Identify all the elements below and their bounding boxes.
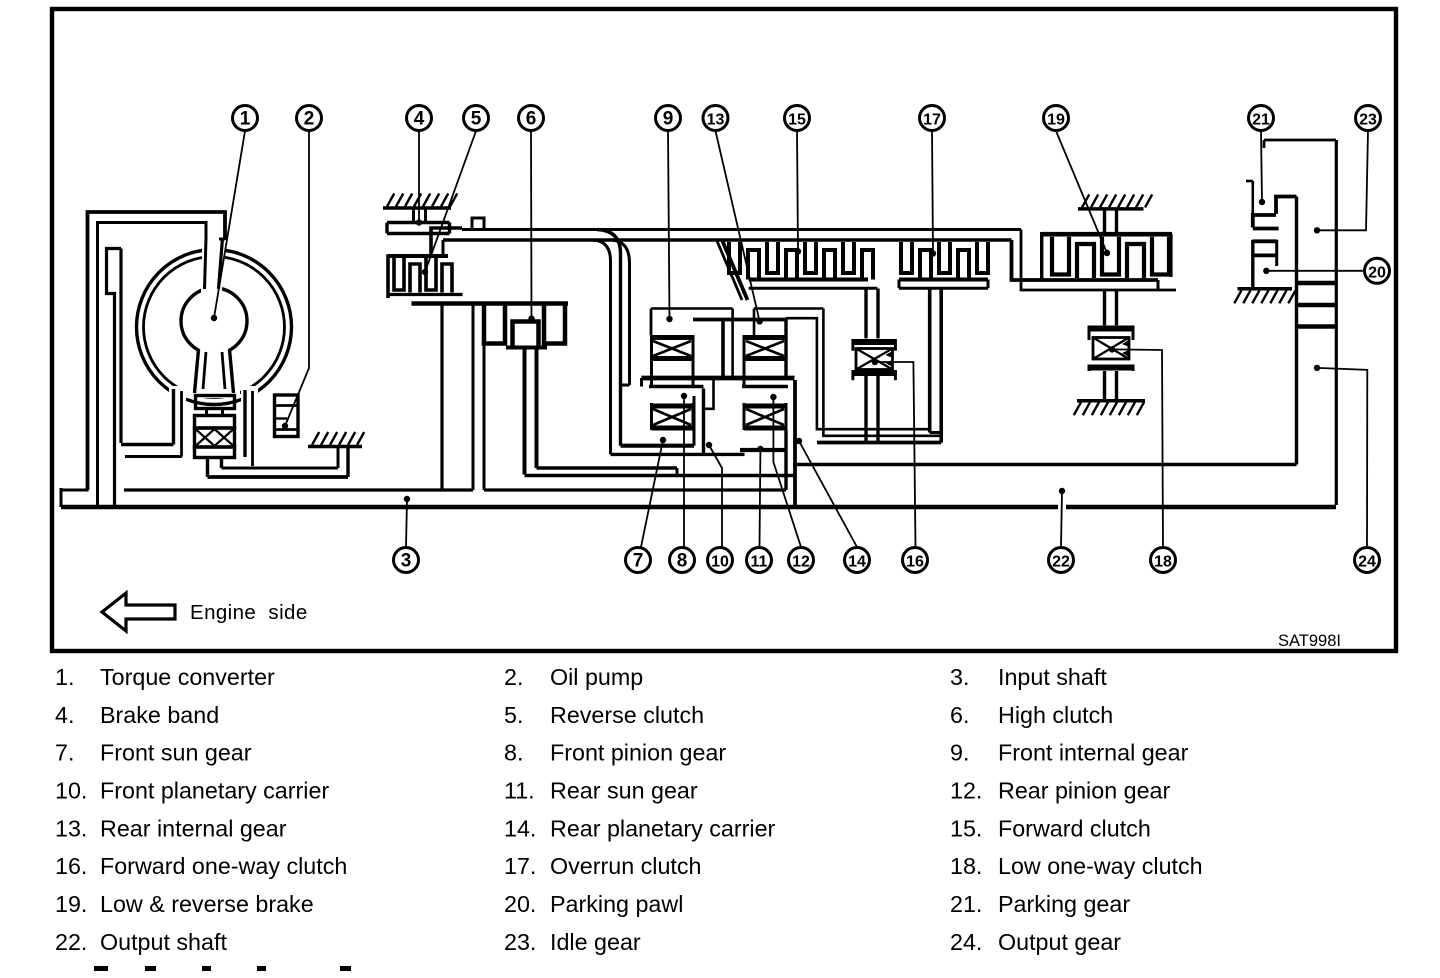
front carrier bottom plates xyxy=(621,444,695,448)
idle gear shaft right wall xyxy=(1335,140,1338,505)
input drum channel top xyxy=(462,228,1021,231)
svg-text:High clutch: High clutch xyxy=(998,702,1113,728)
leader 21 parking gear xyxy=(1261,131,1262,202)
svg-text:3: 3 xyxy=(401,551,412,572)
hub waist xyxy=(205,409,208,416)
stator funnel xyxy=(195,350,199,394)
front internal/pinion bearing box xyxy=(652,335,694,340)
svg-text:Forward one-way clutch: Forward one-way clutch xyxy=(100,853,347,879)
carrier plate xyxy=(642,376,795,381)
front internal gear (9) bracket xyxy=(651,307,733,310)
forward one-way clutch sprag box xyxy=(856,349,893,370)
svg-text:17.: 17. xyxy=(504,853,536,879)
input shaft riser to clutch hub xyxy=(440,304,443,491)
leader 22 output shaft xyxy=(1061,491,1062,547)
svg-text:Overrun clutch: Overrun clutch xyxy=(550,853,702,879)
svg-text:15: 15 xyxy=(788,112,806,129)
low one-way clutch bottom flange xyxy=(1089,365,1133,371)
svg-text:Front planetary carrier: Front planetary carrier xyxy=(100,778,329,804)
low one-way clutch case ground xyxy=(1077,399,1145,403)
svg-text:1: 1 xyxy=(240,109,251,130)
leader 6 high clutch xyxy=(530,131,533,319)
low one-way clutch top flange xyxy=(1089,326,1133,332)
svg-text:18.: 18. xyxy=(950,853,982,879)
svg-text:9: 9 xyxy=(663,109,674,130)
engine side arrow xyxy=(102,593,175,631)
output gear case wall xyxy=(1295,197,1298,465)
svg-text:11.: 11. xyxy=(504,778,535,804)
front sun gear plate xyxy=(649,385,704,389)
svg-text:17: 17 xyxy=(923,112,941,129)
drive plate bar xyxy=(107,249,122,506)
svg-text:1.: 1. xyxy=(55,664,74,690)
svg-text:9.: 9. xyxy=(950,740,969,766)
torque converter bell housing inner wall xyxy=(98,223,207,506)
high clutch hub plate xyxy=(506,346,547,350)
idle/output gear mesh bars xyxy=(1297,281,1336,286)
input shaft (3) bottom line xyxy=(61,505,1336,510)
input shaft left end cap xyxy=(60,488,63,507)
callout circle 14 xyxy=(845,548,870,573)
svg-text:20: 20 xyxy=(1368,264,1386,281)
brake band (4) strap xyxy=(387,223,450,234)
callout circle 4 xyxy=(407,106,432,131)
callout circle 1 xyxy=(233,106,258,131)
diagram border frame xyxy=(52,9,1396,651)
parking gear (21) xyxy=(1253,197,1297,229)
svg-text:6.: 6. xyxy=(950,702,969,728)
low & reverse brake ground anchor xyxy=(1078,207,1144,211)
svg-text:22: 22 xyxy=(1052,554,1070,571)
rear carrier bottom plate xyxy=(740,448,786,452)
callout circle 11 xyxy=(747,548,772,573)
rear internal gear right channel xyxy=(786,318,930,429)
idle gear top bracket xyxy=(1264,139,1336,142)
svg-text:Oil pump: Oil pump xyxy=(550,664,643,690)
callout circle 21 xyxy=(1249,106,1274,131)
callout circle 3 xyxy=(394,548,419,573)
rear sun/pinion bearing box (11/12) xyxy=(744,404,786,409)
svg-text:3.: 3. xyxy=(950,664,969,690)
leader 1 torque converter xyxy=(214,131,245,318)
hub flange 2 xyxy=(195,416,235,429)
forward one-way clutch top flange xyxy=(853,339,896,345)
svg-text:4.: 4. xyxy=(55,702,74,728)
leader 17 overrun clutch xyxy=(932,131,933,254)
callout circle 19 xyxy=(1044,106,1069,131)
stator one-way clutch XX box xyxy=(195,428,235,447)
reverse clutch (5) drum xyxy=(388,228,462,298)
svg-text:10.: 10. xyxy=(55,778,87,804)
torus shell right leg xyxy=(243,390,246,457)
svg-text:2.: 2. xyxy=(504,664,523,690)
svg-text:21.: 21. xyxy=(950,891,982,917)
svg-text:8.: 8. xyxy=(504,740,523,766)
svg-text:Front pinion gear: Front pinion gear xyxy=(550,740,726,766)
low & reverse brake hub stem down xyxy=(1103,291,1106,325)
callout circle 20 xyxy=(1365,258,1390,283)
callout circle 5 xyxy=(464,106,489,131)
front carrier S-channel xyxy=(721,320,725,378)
svg-text:Output shaft: Output shaft xyxy=(100,929,227,955)
svg-text:4: 4 xyxy=(414,109,425,130)
torus shell left leg xyxy=(172,389,175,445)
low & reverse brake friction plates xyxy=(1052,237,1169,275)
low & reverse brake drum plate xyxy=(1042,232,1172,237)
torque converter bell housing outer wall xyxy=(88,212,226,490)
brake band (4) ground anchor xyxy=(383,206,451,210)
svg-text:12: 12 xyxy=(792,554,810,571)
svg-text:16.: 16. xyxy=(55,853,87,879)
rear internal gear (13) bracket xyxy=(754,307,823,310)
svg-text:8: 8 xyxy=(677,551,688,572)
reverse clutch friction plates xyxy=(394,258,436,290)
svg-text:19: 19 xyxy=(1047,112,1065,129)
svg-text:11: 11 xyxy=(751,554,768,571)
low one-way clutch lower stem xyxy=(1103,371,1106,401)
svg-text:23.: 23. xyxy=(504,929,536,955)
leader 24 output gear xyxy=(1317,368,1367,547)
svg-text:14.: 14. xyxy=(504,815,536,841)
svg-text:22.: 22. xyxy=(55,929,87,955)
turbine entry neck xyxy=(205,238,207,289)
leader 23 idle gear xyxy=(1317,131,1368,230)
reverse clutch comb plates xyxy=(388,254,448,258)
leader 10 front planetary carrier xyxy=(709,445,722,547)
svg-text:5.: 5. xyxy=(504,702,523,728)
high clutch (6) friction plates xyxy=(484,306,565,344)
output shaft (22) top line xyxy=(793,463,1297,467)
callout circle 24 xyxy=(1355,548,1380,573)
rear sun gear plate xyxy=(742,385,788,389)
svg-text:Reverse clutch: Reverse clutch xyxy=(550,702,704,728)
oil pump (2) body xyxy=(275,395,299,437)
svg-text:15.: 15. xyxy=(950,815,982,841)
overrun clutch hub plates xyxy=(899,278,988,282)
torque converter (1) torus outer shell xyxy=(137,250,292,405)
svg-text:Parking pawl: Parking pawl xyxy=(550,891,683,917)
callout circle 17 xyxy=(920,106,945,131)
callout circle 6 xyxy=(519,106,544,131)
leader 5 reverse clutch xyxy=(425,131,476,272)
svg-text:Output gear: Output gear xyxy=(998,929,1121,955)
svg-text:10: 10 xyxy=(711,554,729,571)
callout circle 16 xyxy=(903,548,928,573)
svg-text:Front sun gear: Front sun gear xyxy=(100,740,252,766)
overrun hub legs xyxy=(928,288,932,432)
svg-text:19.: 19. xyxy=(55,891,87,917)
leader 20 parking pawl xyxy=(1266,270,1364,272)
callout circle 8 xyxy=(670,548,695,573)
overrun clutch (17) friction plates xyxy=(901,242,988,273)
svg-text:12.: 12. xyxy=(950,778,982,804)
leader 19 low & reverse brake xyxy=(1056,131,1107,253)
callout circle 9 xyxy=(656,106,681,131)
svg-text:Low & reverse brake: Low & reverse brake xyxy=(100,891,314,917)
ground beside oil pump xyxy=(308,445,362,449)
svg-text:Rear pinion gear: Rear pinion gear xyxy=(998,778,1170,804)
svg-text:14: 14 xyxy=(848,554,866,571)
rear internal/pinion bearing box xyxy=(744,335,786,340)
svg-text:2: 2 xyxy=(304,109,315,130)
forward clutch drum dished left wall xyxy=(717,241,742,300)
svg-text:5: 5 xyxy=(471,109,482,130)
svg-text:SAT998I: SAT998I xyxy=(1278,632,1341,650)
forward clutch hub plates xyxy=(749,278,868,282)
leader 12 rear pinion gear xyxy=(773,397,801,547)
forward clutch drum corner xyxy=(1021,230,1176,291)
leader 3 input shaft xyxy=(406,499,407,547)
svg-text:Input shaft: Input shaft xyxy=(998,664,1107,690)
svg-text:Rear internal gear: Rear internal gear xyxy=(100,815,287,841)
forward one-way clutch lower stem xyxy=(864,376,867,443)
low & reverse brake anchor stem xyxy=(1103,209,1106,232)
callout circle 12 xyxy=(789,548,814,573)
svg-text:7: 7 xyxy=(633,551,644,572)
callout circle 22 xyxy=(1049,548,1074,573)
parking pawl (20) xyxy=(1251,240,1254,289)
leader 14 rear planetary carrier xyxy=(799,441,857,547)
input drum rounded corner down xyxy=(597,230,621,446)
svg-text:24: 24 xyxy=(1358,554,1376,571)
svg-text:Rear sun gear: Rear sun gear xyxy=(550,778,698,804)
parking gear support stub xyxy=(1252,181,1255,215)
leader 13 rear internal gear xyxy=(716,131,760,321)
hub flange 3 xyxy=(195,447,235,458)
high clutch hub legs xyxy=(523,349,527,475)
svg-text:24.: 24. xyxy=(950,929,982,955)
leader 7 front sun gear xyxy=(641,440,663,547)
low one-way clutch sprag box xyxy=(1093,338,1129,360)
svg-text:Front internal gear: Front internal gear xyxy=(998,740,1189,766)
svg-text:Rear planetary carrier: Rear planetary carrier xyxy=(550,815,776,841)
input drum stub xyxy=(472,218,484,230)
high clutch hub bottom channel xyxy=(537,466,678,469)
svg-text:16: 16 xyxy=(906,554,924,571)
svg-text:Engine side: Engine side xyxy=(190,601,308,624)
svg-text:13.: 13. xyxy=(55,815,87,841)
svg-text:Low one-way clutch: Low one-way clutch xyxy=(998,853,1203,879)
front sun/pinion bearing box (7/8) xyxy=(652,404,694,409)
svg-text:18: 18 xyxy=(1154,554,1172,571)
housing bottom links xyxy=(121,443,174,447)
rear carrier plate xyxy=(793,380,797,507)
leader 9 front internal gear xyxy=(668,131,670,319)
svg-text:7.: 7. xyxy=(55,740,74,766)
svg-text:13: 13 xyxy=(707,112,725,129)
input shaft top line segments xyxy=(61,489,89,492)
callout circle 13 xyxy=(703,106,728,131)
svg-text:20.: 20. xyxy=(504,891,536,917)
callout circle 2 xyxy=(297,106,322,131)
svg-text:Forward clutch: Forward clutch xyxy=(998,815,1151,841)
svg-text:21: 21 xyxy=(1252,112,1270,129)
stator support foot xyxy=(206,458,209,478)
turbine/impeller hub circle xyxy=(181,288,247,354)
parking pawl ground xyxy=(1238,287,1293,291)
forward one-way clutch (16) upper stem xyxy=(864,289,867,339)
leader 11 rear sun gear xyxy=(759,449,762,547)
forward clutch (15) friction plates xyxy=(729,242,854,273)
leader 8 front pinion gear xyxy=(683,396,685,547)
svg-text:Idle gear: Idle gear xyxy=(550,929,641,955)
leader 2 oil pump xyxy=(285,131,309,426)
callout circle 10 xyxy=(708,548,733,573)
leader 15 forward clutch xyxy=(797,131,798,251)
svg-text:23: 23 xyxy=(1359,112,1377,129)
brake band anchor struts xyxy=(412,208,415,223)
callout circle 23 xyxy=(1356,106,1381,131)
svg-text:Brake band: Brake band xyxy=(100,702,219,728)
forward one-way clutch bottom flange xyxy=(853,370,896,376)
callout circle 15 xyxy=(785,106,810,131)
callout circle 18 xyxy=(1151,548,1176,573)
oil pump pan lines xyxy=(222,467,339,470)
svg-text:6: 6 xyxy=(526,109,537,130)
leader 18 low one-way clutch xyxy=(1112,349,1163,547)
turbine hub flange 1 xyxy=(196,396,235,409)
svg-text:Torque converter: Torque converter xyxy=(100,664,275,690)
leader 4 brake band xyxy=(418,131,420,223)
callout circle 7 xyxy=(626,548,651,573)
svg-text:Parking gear: Parking gear xyxy=(998,891,1130,917)
leader 16 forward one-way clutch xyxy=(875,362,916,547)
cut-off text at page bottom xyxy=(94,966,108,971)
